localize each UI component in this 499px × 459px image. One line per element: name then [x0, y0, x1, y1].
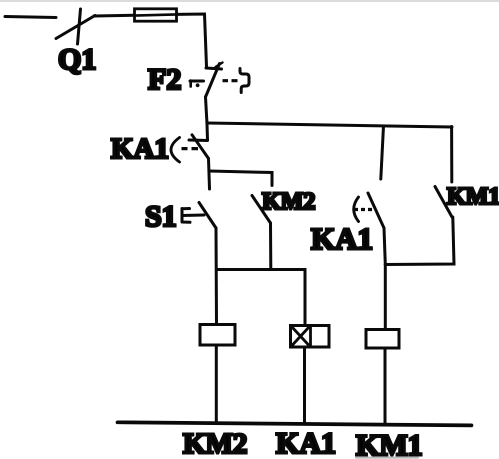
fuse FU: [134, 9, 177, 21]
wire KM2 contact down: [269, 223, 272, 270]
label S1: [145, 200, 177, 233]
node A branch to right rail top: [207, 123, 452, 127]
contact KM2 blade: [252, 196, 271, 224]
wire F2 to node A: [206, 97, 208, 124]
label KA1 upper-left: [111, 133, 169, 165]
wire fuse to top-right corner and down: [177, 14, 207, 67]
contact F2 left seat: [190, 81, 204, 88]
svg-text:KM1: KM1: [356, 429, 423, 459]
svg-text:KM1: KM1: [447, 184, 499, 210]
contact KA1 right: blade: [368, 193, 384, 228]
label KM2 upper: [262, 189, 315, 215]
svg-text:Q1: Q1: [58, 43, 96, 76]
switch Q1 cross bar: [78, 9, 81, 44]
contact F2 blade: [206, 63, 223, 98]
contact F2 thermal NC: right seat tick: [206, 68, 222, 69]
svg-text:KM2: KM2: [183, 428, 247, 459]
contact F2 heater hook: [240, 69, 249, 93]
contact KA1 left: arc actuator: [171, 138, 180, 163]
wire junction down to KM1 coil: [384, 265, 387, 330]
svg-text:KA1: KA1: [311, 221, 373, 256]
contact KA1 right: dashed link: [355, 208, 373, 211]
scan artifact underline: [356, 457, 418, 459]
contact KA1 left: seat: [189, 139, 208, 143]
coil KM2: [200, 325, 235, 346]
contact KM1 blade: [435, 187, 452, 218]
label KM2 bottom: [183, 428, 247, 459]
contact KA1 right: arc actuator: [354, 197, 359, 222]
wire KA1 coil to rail: [303, 347, 306, 424]
wire S1 down to KM2 coil: [215, 228, 219, 324]
svg-text:KA1: KA1: [276, 427, 336, 459]
label KM1 upper: [447, 184, 499, 210]
svg-text:KA1: KA1: [111, 133, 169, 165]
wire KA1 right contact down: [384, 228, 385, 265]
label KA1 right: [311, 221, 373, 256]
contact KA1 left: dashed link: [182, 147, 199, 150]
wire branch to KM2 contact: [209, 171, 272, 186]
wire node A down to KA1 contact: [206, 124, 210, 140]
contact KA1 left: blade: [192, 135, 209, 159]
scan artifact top edge line: [0, 0, 499, 2]
label F2: [148, 63, 181, 96]
wire left supply stub: [5, 17, 56, 18]
coil KA1 with X element: [291, 326, 330, 348]
wire KM1 coil to rail: [384, 348, 387, 424]
svg-text:S1: S1: [145, 200, 177, 233]
svg-text:F2: F2: [148, 63, 181, 96]
label Q1: [58, 43, 96, 76]
coil KM1: [366, 330, 399, 349]
wire mid branch down to KA1 right contact: [381, 126, 384, 179]
bottom rail: [118, 422, 472, 425]
wire KM2 coil to rail: [215, 345, 218, 423]
label KM1 bottom: [356, 429, 423, 459]
wire KM1 branch top corner down: [450, 127, 453, 183]
wire KM1 contact down and left to junction: [385, 217, 454, 265]
label KA1 bottom: [276, 427, 336, 459]
pushbutton S1 handle: [182, 209, 204, 223]
svg-text:KM2: KM2: [262, 189, 315, 215]
wire KA1 contact to S1: [209, 159, 210, 190]
wire Q1 to fuse: [94, 14, 135, 18]
wire jog junction to KA1 coil branch: [217, 270, 306, 326]
switch Q1 blade: [56, 16, 95, 39]
pushbutton S1 blade: [199, 203, 216, 229]
contact F2 dashed link: [223, 79, 238, 82]
